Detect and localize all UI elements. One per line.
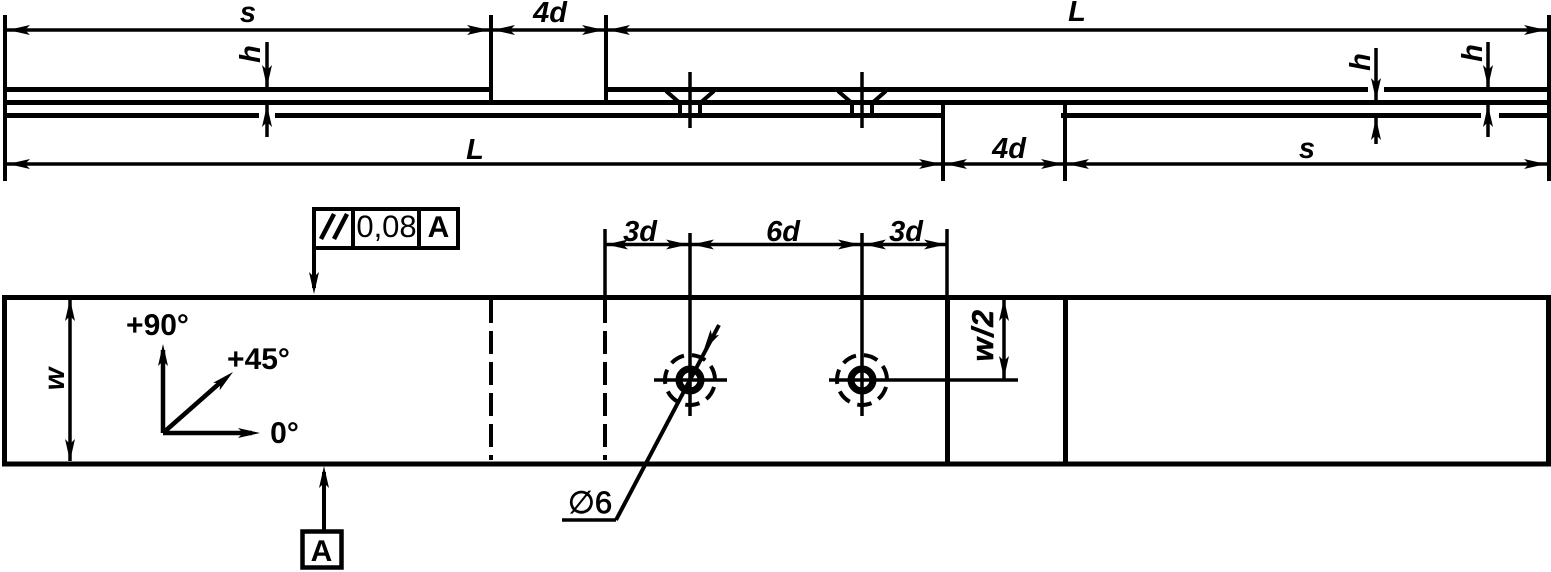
arrow 4d bottom left	[945, 159, 967, 169]
svg-text:6d: 6d	[766, 216, 801, 248]
hole 1 centerline vertical	[688, 233, 692, 416]
label 3d right	[889, 216, 924, 248]
rivet 2 side view	[838, 72, 886, 128]
label 4d bottom	[991, 133, 1027, 165]
svg-text:w: w	[39, 365, 71, 390]
plan solid edge at sheet end	[945, 298, 950, 462]
svg-text:4d: 4d	[532, 0, 568, 29]
diameter label	[562, 485, 616, 520]
dimension w/2	[967, 298, 1009, 379]
dimension h left	[235, 42, 272, 137]
arrow L top right	[1524, 25, 1546, 35]
hole 2	[829, 355, 1018, 405]
strain rosette 0 degree arrow	[163, 417, 299, 450]
svg-text:A: A	[311, 535, 333, 568]
left extension line	[3, 15, 7, 181]
svg-text:+90°: +90°	[126, 309, 189, 342]
strain rosette 45 degree arrow	[163, 343, 290, 433]
svg-text:+45°: +45°	[227, 343, 290, 376]
diameter leader line	[616, 325, 719, 520]
bottom dimension line	[7, 162, 1547, 166]
right shim left edge / extension	[1063, 100, 1067, 181]
arrow s bottom right	[1524, 159, 1546, 169]
arrow 4d right	[582, 25, 604, 35]
arrow 3d left outer	[606, 240, 628, 250]
strain rosette 90 degree arrow	[126, 309, 189, 433]
extension line above plan at x947	[945, 229, 949, 295]
label 3d left	[623, 216, 658, 248]
hidden edge dashed line left	[489, 300, 493, 460]
arrow L bottom left	[8, 159, 30, 169]
arrows at hole1	[666, 240, 714, 250]
arrow 4d bottom right	[1041, 159, 1063, 169]
dimension w	[39, 299, 75, 461]
svg-text:0,08: 0,08	[356, 209, 416, 244]
svg-text:s: s	[1299, 133, 1315, 165]
svg-text:L: L	[466, 134, 484, 166]
svg-text:w/2: w/2	[967, 309, 1000, 362]
top dimension line	[7, 28, 1547, 32]
datum A leader	[319, 466, 329, 531]
svg-text:h: h	[1457, 44, 1489, 62]
extension line above plan at x605	[603, 229, 607, 295]
feature control frame leader	[309, 248, 319, 294]
right extension line	[1547, 15, 1551, 181]
hole 1	[654, 355, 727, 405]
arrow L top left	[608, 25, 630, 35]
interface line full width	[3, 100, 1551, 105]
bottom sheet right edge / extension	[941, 100, 945, 181]
feature control frame	[314, 207, 458, 248]
arrow s right	[467, 25, 489, 35]
arrows at hole2	[838, 240, 886, 250]
hole spacing dimension line	[605, 243, 947, 247]
bottom shim lower edge right segment	[1061, 113, 1551, 118]
svg-text:4d: 4d	[991, 133, 1027, 165]
dimension h right 1	[1345, 48, 1381, 144]
top sheet upper edge left segment (shim)	[3, 87, 493, 92]
hole 2 centerline vertical	[860, 233, 864, 416]
svg-text:∅6: ∅6	[568, 485, 612, 520]
plan solid edge at shim start	[1063, 298, 1068, 462]
label L top	[1068, 0, 1086, 28]
svg-text:3d: 3d	[889, 216, 924, 248]
dimension h right 2	[1457, 42, 1493, 137]
svg-text:h: h	[1345, 53, 1377, 71]
svg-text:0°: 0°	[270, 417, 299, 450]
rivet 1 side view	[666, 72, 714, 128]
arrow s left	[8, 25, 30, 35]
label s top	[240, 0, 256, 29]
svg-text:L: L	[1068, 0, 1086, 28]
arrow s bottom left	[1067, 159, 1089, 169]
plan outline	[5, 298, 1549, 465]
arrow 3d right outer	[924, 240, 946, 250]
svg-text:A: A	[428, 211, 450, 244]
top sheet upper edge right segment	[604, 87, 1551, 92]
left shim right edge / extension	[489, 15, 493, 105]
label 6d	[766, 216, 801, 248]
svg-text:h: h	[235, 45, 267, 63]
label 4d top	[532, 0, 568, 29]
svg-text:s: s	[240, 0, 256, 29]
arrow L bottom right	[919, 159, 941, 169]
bottom sheet lower edge left segment	[3, 113, 945, 118]
top sheet left edge / extension	[604, 15, 608, 105]
label L bottom	[466, 134, 484, 166]
hidden edge dashed line right	[603, 300, 607, 460]
datum A box	[303, 532, 342, 569]
arrow 4d left	[493, 25, 515, 35]
label s bottom	[1299, 133, 1315, 165]
svg-text:3d: 3d	[623, 216, 658, 248]
